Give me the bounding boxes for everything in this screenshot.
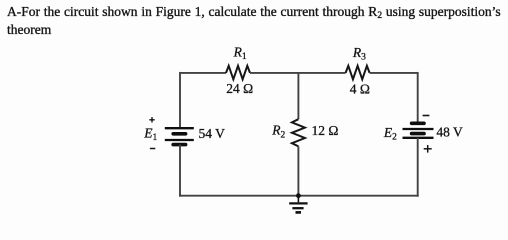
- title text: [7, 4, 508, 38]
- svg-text:24 Ω: 24 Ω: [226, 81, 253, 96]
- wire: middle branch lower: [297, 146, 299, 195]
- resistor R3: [346, 66, 370, 80]
- wire: left branch lower: [179, 145, 181, 197]
- wire: middle branch upper: [297, 73, 299, 119]
- svg-text:54 V: 54 V: [199, 126, 226, 141]
- svg-text:R3: R3: [352, 45, 366, 63]
- wire: right branch lower: [417, 138, 419, 197]
- minus sign E2: [423, 115, 430, 117]
- resistor R2: [292, 119, 305, 146]
- resistor R1: [226, 66, 250, 80]
- wire: top-right segment: [370, 72, 418, 74]
- wire: right branch upper: [417, 72, 419, 123]
- svg-text:E1: E1: [143, 126, 157, 144]
- plus sign E2: [424, 145, 432, 153]
- wire: top-left segment: [180, 72, 226, 74]
- node: junction dot: [296, 193, 301, 198]
- battery E1: [165, 128, 194, 144]
- plus sign E1: [149, 117, 154, 122]
- svg-text:48 V: 48 V: [436, 125, 463, 140]
- minus sign E1: [150, 148, 155, 150]
- battery E2: [403, 123, 434, 138]
- svg-text:4 Ω: 4 Ω: [350, 82, 370, 97]
- wire: bottom: [179, 195, 419, 197]
- svg-text:R2: R2: [271, 123, 285, 141]
- wire: left branch upper: [179, 72, 181, 128]
- svg-text:12 Ω: 12 Ω: [312, 123, 339, 138]
- ground: [289, 196, 307, 213]
- svg-text:R1: R1: [233, 44, 247, 62]
- svg-text:E2: E2: [383, 125, 397, 143]
- wire: top-middle segment: [250, 72, 346, 74]
